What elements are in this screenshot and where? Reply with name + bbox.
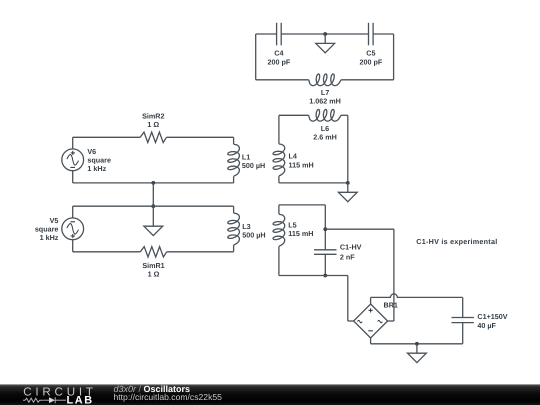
svg-text:1.062 mH: 1.062 mH [309,97,341,106]
wire: L5 bottom down to bridge AC1 [347,276,349,322]
svg-text:500 µH: 500 µH [242,161,265,170]
label BR1 [384,300,398,309]
label C5 200 pF [360,49,383,67]
wire: L5 loop left with L5 [278,205,280,214]
label V6 square 1kHz [87,147,111,173]
wire: loop2 right edge with L3 [233,206,235,213]
label L1 500uH [242,152,265,170]
inductor L4 [273,144,285,176]
label L6 2.6 mH [313,124,337,142]
wire: loop2 bottom with SimR1 [73,251,141,253]
junction dot loop2 top [151,204,155,208]
footer bar [0,384,540,405]
svg-text:200 pF: 200 pF [360,57,383,66]
svg-text:C1+150V: C1+150V [477,312,507,321]
junction dot top ground node [323,32,327,36]
wire: L6 loop top with L6 [279,114,309,116]
svg-text:200 pF: 200 pF [268,57,291,66]
capacitor C1-HV [314,250,336,255]
svg-text:115 mH: 115 mH [288,229,313,238]
label V5 square 1kHz [35,216,59,242]
inductor L6 [309,110,341,122]
label SimR2 1 ohm [142,111,164,129]
wire: loop2 left edge [72,206,74,218]
inductor L3 [228,213,240,245]
label L5 115 mH [288,220,313,238]
capacitor C1+150V [452,318,474,323]
wire: bridge AC2 stub [388,320,394,322]
wire: L5 loop top [279,204,325,206]
label L4 115 mH [289,152,314,170]
svg-text:C1-HV: C1-HV [340,243,362,252]
svg-text:1 Ω: 1 Ω [148,270,160,279]
junction dot bottom ground node [415,342,419,346]
svg-text:L1: L1 [242,152,250,161]
ground bottom [408,344,427,363]
wire: L6 loop right edge [347,115,349,183]
wire: L6 loop bottom [279,182,348,184]
wire: top loop right edge [393,34,395,80]
svg-text:L6: L6 [321,124,329,133]
voltage source V5 [62,218,84,240]
annotation C1-HV is experimental [416,237,497,246]
svg-text:LAB: LAB [67,395,94,405]
svg-text:C5: C5 [366,49,375,58]
svg-text:C1-HV is experimental: C1-HV is experimental [416,237,497,246]
resistor SimR1 [140,247,166,257]
svg-text:115 mH: 115 mH [289,160,314,169]
wire: L6 loop left edge with L4 [278,115,280,144]
svg-text:http://circuitlab.com/cs22k55: http://circuitlab.com/cs22k55 [114,392,223,402]
svg-text:SimR2: SimR2 [142,111,164,120]
wire: bridge + output with hop over AC wire [370,297,372,304]
svg-text:L4: L4 [289,152,297,161]
label L3 500uH [242,222,265,240]
voltage source V6 [62,149,84,171]
inductor L5 [273,214,285,246]
label L7 1.062 mH [309,88,341,106]
inductor L7 [309,74,341,86]
svg-text:C4: C4 [274,49,283,58]
junction dot L6 loop ground node [346,181,350,185]
wire: loop2 top [73,205,234,207]
junction dot C1-HV bottom [323,274,327,278]
ground middle (long stub) [152,206,154,226]
svg-text:SimR1: SimR1 [142,261,164,270]
ground top [316,34,335,53]
wire: loop1 right edge with L1 [233,137,235,144]
wire: top loop left edge [255,34,257,80]
junction dot C1-HV top branch [323,227,327,231]
wire: L5 loop right edge [324,205,326,250]
capacitor C4 [277,23,282,46]
svg-text:BR1: BR1 [384,300,398,309]
label C1-HV 2 nF [340,243,362,262]
svg-text:L3: L3 [242,222,250,231]
wire: loop1 top with SimR2 [73,136,140,138]
inductor L1 [228,144,240,176]
label C1+150V 40uF [477,312,507,330]
capacitor C5 [369,23,374,46]
wire: L5 loop bottom [279,275,348,277]
resistor SimR2 [140,132,166,142]
wire: top loop top segments [256,33,277,35]
svg-text:40 µF: 40 µF [477,321,496,330]
label SimR1 1 ohm [142,261,164,279]
wire: link loop1 to loop2 [152,183,154,206]
svg-text:L7: L7 [321,88,329,97]
junction dot loop1 bottom [151,181,155,185]
wire: top loop bottom with L7 [256,79,309,81]
wire: + wire down to C1+150V [462,297,464,317]
svg-text:1 Ω: 1 Ω [147,120,159,129]
logo schematic squiggle (resistor + diode) [23,397,66,403]
bridge rectifier BR1 [354,304,388,338]
wire: loop1 bottom [73,182,234,184]
wire: loop1 left edge [72,137,74,149]
wire: branch from C1-HV node to bridge AC2 [325,228,394,230]
svg-text:2 nF: 2 nF [340,252,355,261]
svg-text:L5: L5 [288,220,296,229]
wire: bridge - output bottom rail [370,338,372,344]
svg-text:1 kHz: 1 kHz [40,233,59,242]
label C4 200 pF [268,49,291,67]
svg-text:2.6 mH: 2.6 mH [313,133,337,142]
svg-text:500 µH: 500 µH [242,231,265,240]
svg-text:1 kHz: 1 kHz [87,164,106,173]
ground mid right [338,183,357,202]
